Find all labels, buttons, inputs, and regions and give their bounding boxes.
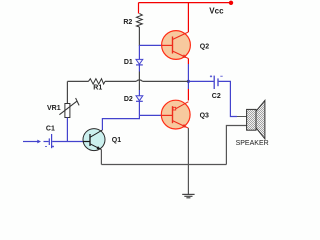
transistor Q1 <box>83 129 105 151</box>
ground bus wire <box>101 164 226 166</box>
node B junction dot <box>187 80 190 83</box>
resistor R1 <box>67 79 136 84</box>
wire node B to C2 <box>188 80 213 82</box>
svg-text:VR1: VR1 <box>47 105 61 112</box>
svg-text:C2: C2 <box>212 93 221 100</box>
speaker <box>247 100 265 138</box>
svg-text:R2: R2 <box>123 19 132 26</box>
wire R1 to node B <box>143 80 189 82</box>
capacitor C2 <box>210 75 223 89</box>
svg-text:C1: C1 <box>46 126 55 133</box>
svg-text:Q1: Q1 <box>112 137 121 144</box>
svg-text:Q3: Q3 <box>200 112 209 119</box>
Vcc terminal dot <box>229 1 233 5</box>
capacitor C1 <box>44 134 55 148</box>
input arrow <box>23 140 41 144</box>
wire Q2 emitter to node B <box>187 59 189 101</box>
wire R1 corner to VR1 top <box>66 81 68 103</box>
svg-text:SPEAKER: SPEAKER <box>236 140 269 147</box>
svg-text:D1: D1 <box>124 59 133 66</box>
svg-text:D2: D2 <box>124 96 133 103</box>
wire Q1 emitter to ground bus <box>100 150 102 165</box>
wire hop over D1-D2 net <box>136 80 143 82</box>
svg-text:Q2: Q2 <box>200 43 209 50</box>
svg-text:Vcc: Vcc <box>209 6 224 15</box>
resistor R2 <box>137 14 143 28</box>
wire R2 to node A <box>138 27 140 46</box>
wire Q3 emitter to ground <box>187 128 189 194</box>
node A (R2/D1/Q2-base junction) <box>139 45 161 59</box>
wire C2 to speaker <box>219 81 247 116</box>
wire C1 to Q1 base <box>52 141 83 143</box>
wire speaker return to ground bus <box>226 126 246 165</box>
variable resistor VR1 <box>59 98 79 118</box>
ground <box>182 194 194 197</box>
svg-text:R1: R1 <box>93 85 102 92</box>
wire VR1 to Q1 base net <box>66 118 68 142</box>
wire D2 to Q3 base and Q1 collector <box>102 101 161 130</box>
transistor Q2 <box>162 31 191 60</box>
diode D1 <box>136 59 143 65</box>
wire D1 to D2 <box>138 65 140 96</box>
diode D2 <box>136 96 143 102</box>
transistor Q3 <box>161 100 190 129</box>
wire Vcc rail <box>139 3 232 32</box>
